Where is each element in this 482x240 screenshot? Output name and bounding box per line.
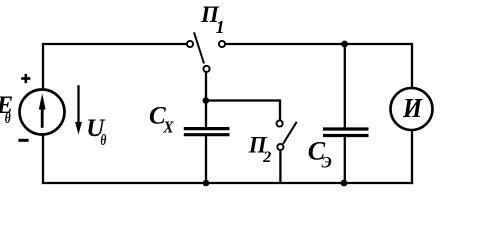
- label C-e: [308, 136, 332, 171]
- meter I circle: [391, 88, 433, 130]
- P2 lower contact: [277, 144, 283, 150]
- wire right vertical upper: [411, 43, 413, 89]
- P1 blade: [194, 32, 204, 63]
- arrow U0: [75, 85, 82, 134]
- switch P2: [277, 120, 297, 150]
- P1 left contact: [187, 41, 193, 47]
- wire left vertical lower: [42, 134, 44, 184]
- wire branch vertical to P2: [279, 99, 281, 120]
- wire bottom rail: [42, 182, 413, 184]
- P2 upper contact: [277, 120, 283, 126]
- svg-text:2: 2: [262, 149, 271, 166]
- svg-text:И: И: [402, 92, 423, 123]
- svg-text:X: X: [163, 118, 175, 137]
- wire CX bottom: [205, 136, 207, 184]
- wire C-e bottom: [344, 137, 346, 184]
- label E0: [0, 92, 13, 127]
- P2 blade: [283, 122, 297, 144]
- wire P1 pole down: [205, 72, 207, 128]
- P1 right contact: [219, 41, 225, 47]
- wire left vertical upper: [42, 43, 44, 90]
- capacitor CX: [184, 129, 230, 135]
- wire top-right segment: [225, 43, 414, 45]
- label P1: [200, 2, 225, 37]
- P1 pole contact: [203, 66, 209, 72]
- switch P1: [187, 32, 225, 72]
- wire C-e top: [344, 44, 346, 128]
- wire P2 down: [279, 150, 281, 184]
- label CX: [149, 102, 174, 136]
- svg-text:θ: θ: [5, 110, 11, 127]
- wire right vertical lower: [411, 130, 413, 185]
- node junction dot: [203, 97, 210, 104]
- label U0: [86, 115, 107, 149]
- junction dot CX bottom: [203, 180, 210, 187]
- svg-text:1: 1: [216, 17, 225, 37]
- source arrow: [39, 94, 46, 128]
- plus sign: [21, 74, 30, 83]
- junction dot top C-e: [341, 41, 348, 48]
- wire top-left segment: [42, 43, 188, 45]
- source E0 circle: [20, 90, 65, 135]
- label P2: [248, 132, 271, 166]
- svg-text:Э: Э: [322, 154, 332, 171]
- capacitor C-e: [323, 129, 369, 136]
- junction dot C-e bottom: [341, 180, 348, 187]
- wire branch horizontal: [206, 99, 280, 101]
- svg-text:θ: θ: [100, 132, 106, 149]
- minus sign: [18, 139, 28, 142]
